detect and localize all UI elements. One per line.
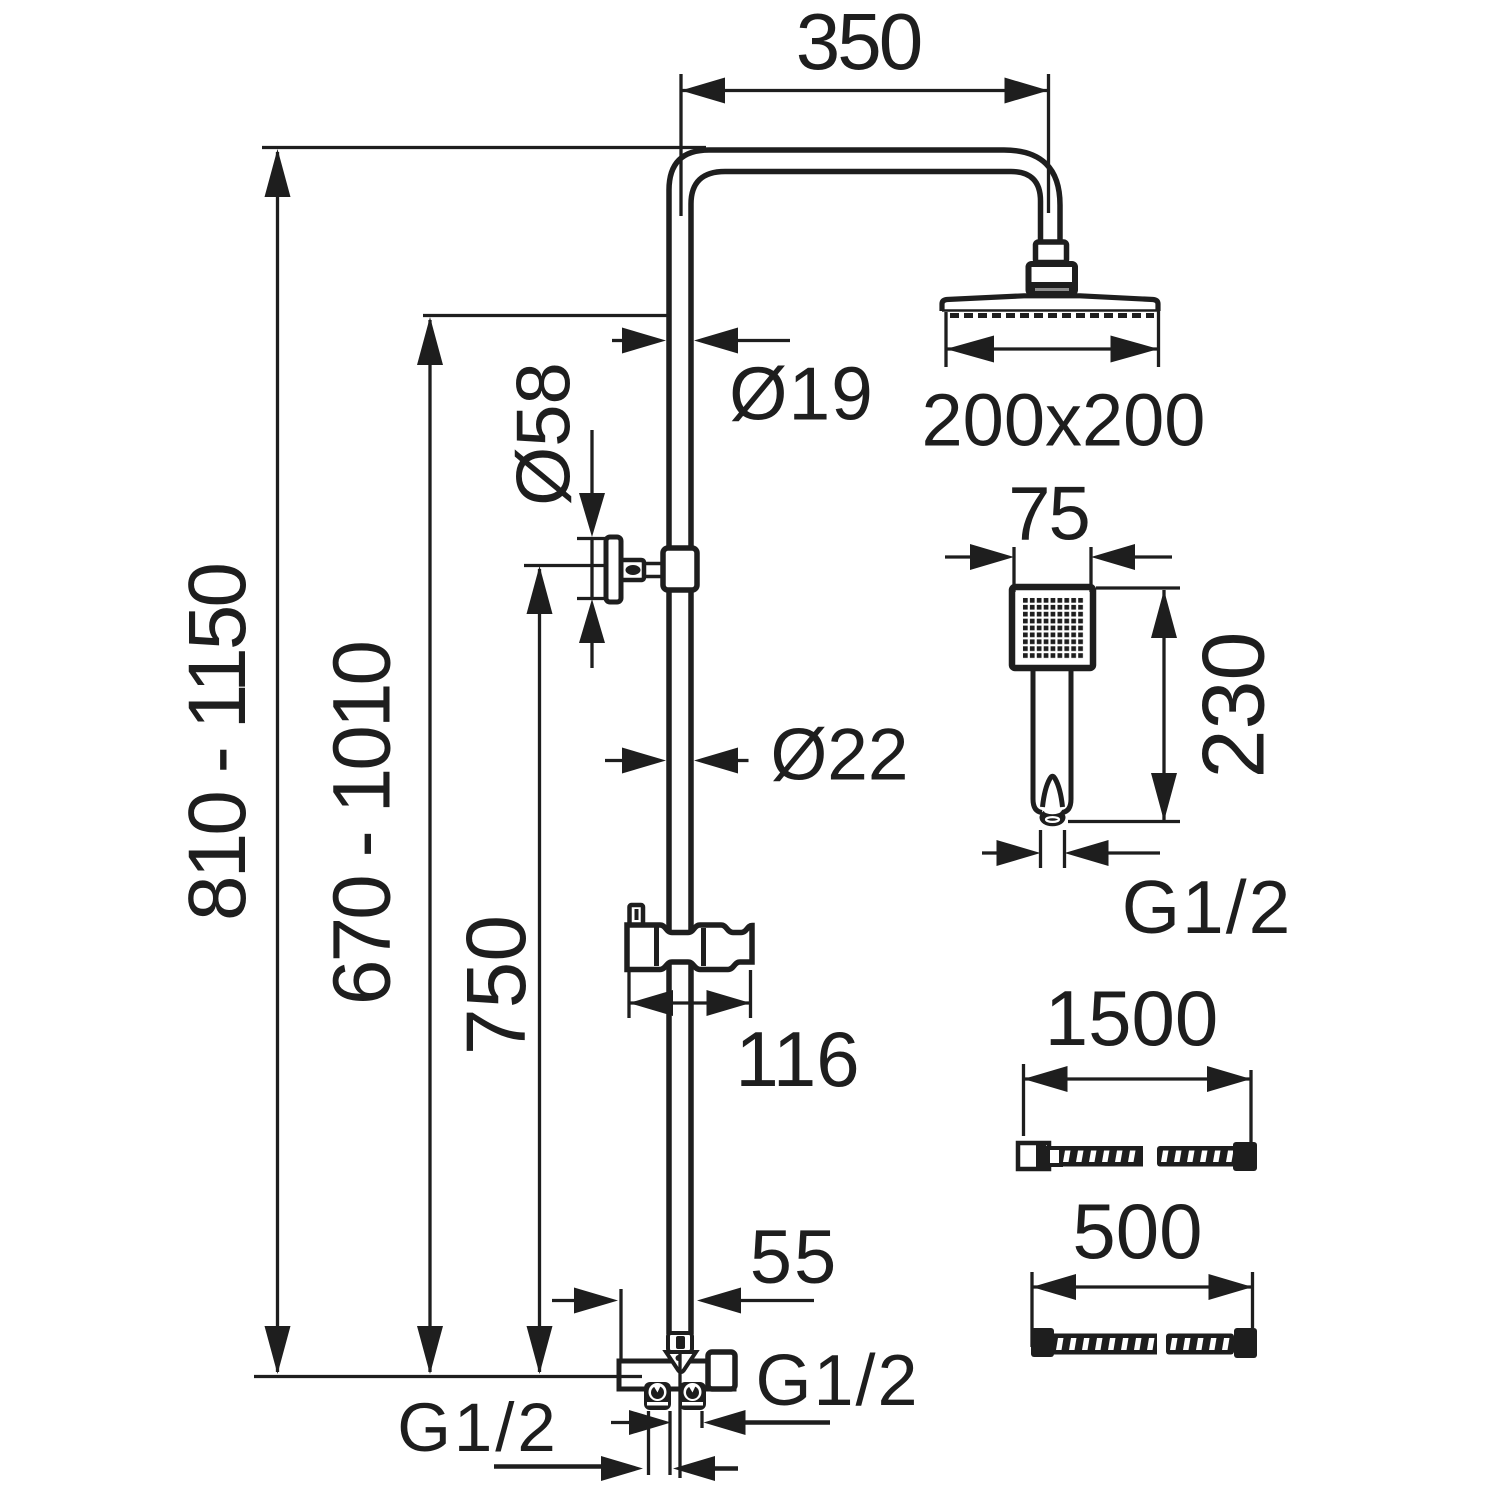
bottom G1/2 upper dim right tail xyxy=(745,1420,830,1425)
dimension Ø22 arrow left xyxy=(622,748,666,774)
dimension 810-1150 bottom arrow xyxy=(265,1326,291,1374)
bottom G1/2 lower dim right tail xyxy=(715,1466,738,1471)
hand shower G1/2 extension line left xyxy=(1039,830,1042,868)
dimension Ø58 bottom arrow shaft xyxy=(590,643,593,668)
hand shower handle left edge xyxy=(1033,668,1042,813)
dimension 670-1010 bottom arrow xyxy=(417,1326,443,1374)
slider holder top tab xyxy=(630,905,644,925)
hand shower G1/2 right tail xyxy=(1108,851,1160,854)
dimension 200 line xyxy=(946,347,1159,350)
dimension 750 bottom arrow xyxy=(527,1326,553,1374)
dimension Ø58 line between arrows xyxy=(590,538,593,599)
hose 500 left segment white slots xyxy=(1056,1338,1155,1350)
riser bottom fitting inner nut xyxy=(676,1336,685,1349)
hose 1500 left segment white slots xyxy=(1063,1151,1136,1163)
dimension 500 extension line right xyxy=(1251,1272,1254,1348)
svg-text:750: 750 xyxy=(449,915,543,1055)
dimension 230 line xyxy=(1162,590,1165,821)
shower head connector lower piece gray seam xyxy=(1035,288,1069,291)
svg-text:230: 230 xyxy=(1184,632,1283,779)
dimension 116 extension line left xyxy=(627,970,630,1018)
hand shower outlet bottom highlight xyxy=(1046,817,1059,822)
svg-text:670 - 1010: 670 - 1010 xyxy=(317,643,408,1005)
dimension 230 extension line bottom xyxy=(1068,820,1180,823)
dimension 230 extension line top xyxy=(1096,586,1180,589)
svg-text:G1/2: G1/2 xyxy=(397,1389,559,1466)
hose 1500 body left segment xyxy=(1059,1146,1143,1167)
shower head connector lower piece xyxy=(1029,264,1076,293)
hose 1500 left fitting nut bar xyxy=(1036,1145,1046,1167)
valve body xyxy=(619,1361,734,1389)
dimension 670-1010 top extension line xyxy=(423,314,668,317)
dimension 350 line xyxy=(681,89,1049,92)
dimension 55 arrow left xyxy=(574,1288,618,1314)
dimension 200 extension line right xyxy=(1157,310,1160,367)
svg-text:Ø58: Ø58 xyxy=(502,362,587,506)
hose 500 body right segment xyxy=(1166,1334,1234,1355)
bottom G1/2 lower dim left tail xyxy=(494,1464,602,1469)
dimension 55 extension line xyxy=(619,1289,622,1362)
valve right outlet square xyxy=(708,1352,735,1389)
wall bracket stem xyxy=(621,560,644,580)
valve bottom left fitting slot xyxy=(647,1402,668,1406)
bottom G1/2 upper dim arrow left xyxy=(629,1410,671,1435)
hand shower head square xyxy=(1012,587,1093,668)
overhead shower nozzle dashes xyxy=(950,313,1154,318)
shower head connector lower piece bottom band xyxy=(1029,282,1075,293)
dimension 350 arrow left xyxy=(681,78,725,104)
dimension 116 line xyxy=(629,1001,751,1004)
wall bracket pin bottom line xyxy=(644,575,664,579)
dimension 810-1150 top arrow xyxy=(265,149,291,197)
dimension 116 extension line right xyxy=(749,970,752,1018)
dimension 500 arrow right xyxy=(1209,1274,1253,1300)
slider holder division line right xyxy=(701,928,706,966)
dimension 500 arrow left xyxy=(1032,1274,1076,1300)
valve bottom right fitting xyxy=(679,1382,706,1410)
hand shower handle teardrop channel xyxy=(1043,776,1063,807)
valve bottom right fitting wedge xyxy=(686,1386,699,1399)
dimension 1500 line xyxy=(1024,1077,1252,1080)
dimension 200 extension line left xyxy=(944,312,947,367)
slider holder top tab slot xyxy=(635,909,639,920)
hose 1500 right segment white slots xyxy=(1161,1151,1234,1163)
hand shower G1/2 arrow right xyxy=(1065,840,1109,866)
svg-text:1500: 1500 xyxy=(1045,974,1219,1062)
svg-text:116: 116 xyxy=(735,1015,859,1103)
slider holder body xyxy=(627,925,752,970)
dimension 116 arrow right xyxy=(707,990,751,1016)
bottom G1/2 extension line b (left fitting right edge) xyxy=(668,1411,671,1475)
dimension 500 line xyxy=(1032,1285,1253,1288)
dimension 75 right tail xyxy=(1135,555,1172,558)
valve inlet cone xyxy=(666,1352,696,1372)
overhead shower head plate xyxy=(942,296,1158,311)
dimension 350 extension line right xyxy=(1047,74,1050,213)
dimension Ø58 extension line bottom xyxy=(577,597,607,600)
valve bottom right fitting circle xyxy=(684,1383,702,1401)
bottom G1/2 extension line a (left fitting left edge) xyxy=(647,1411,650,1475)
svg-text:Ø22: Ø22 xyxy=(771,715,909,796)
dimension 75 arrow right xyxy=(1091,544,1135,570)
dimension Ø19 right tail line xyxy=(738,339,790,342)
dimension 200 arrow right xyxy=(1111,336,1159,363)
dimension Ø19 left tail line xyxy=(612,339,628,342)
hand shower outlet xyxy=(1040,809,1066,827)
svg-text:200x200: 200x200 xyxy=(922,379,1206,462)
svg-text:75: 75 xyxy=(1008,472,1089,557)
dimension 55 right tail line xyxy=(741,1299,814,1302)
wire: main riser pipe inner (right) edge with top arm inner line xyxy=(691,172,1041,1335)
valve bottom left fitting circle xyxy=(649,1383,667,1401)
svg-text:55: 55 xyxy=(750,1215,839,1300)
bottom G1/2 extension line d (right fitting right edge) xyxy=(700,1411,703,1428)
wall bracket pin top line xyxy=(644,562,664,566)
svg-text:810 - 1150: 810 - 1150 xyxy=(172,565,263,921)
dimension 75 extension line right xyxy=(1089,547,1092,592)
dimension 1500 arrow right xyxy=(1207,1066,1251,1092)
wall bracket square collar on pipe xyxy=(663,548,697,590)
dimension Ø58 top arrow (points down) xyxy=(579,493,605,537)
hand shower spray face grid xyxy=(1022,597,1084,659)
hose 500 right end cap xyxy=(1234,1328,1257,1358)
hose 1500 right end cap xyxy=(1233,1142,1257,1171)
shower head connector upper piece xyxy=(1036,242,1067,263)
dimension 750 vertical line xyxy=(538,569,541,1372)
valve bottom right fitting slot xyxy=(682,1402,703,1406)
hose 500 right segment white slots xyxy=(1170,1338,1230,1350)
bottom center extension line through valve fittings xyxy=(678,1354,681,1478)
hand shower G1/2 left tail xyxy=(982,851,998,854)
dimension 810-1150 top extension line xyxy=(262,146,706,149)
riser bottom fitting xyxy=(668,1333,692,1352)
dimension 1500 arrow left xyxy=(1024,1066,1068,1092)
bottom G1/2 lower dim arrow right xyxy=(673,1456,715,1481)
svg-text:350: 350 xyxy=(796,0,921,86)
wall bracket escutcheon plate flange xyxy=(606,537,621,602)
dimension 75 left tail xyxy=(945,555,972,558)
valve bottom left fitting wedge xyxy=(651,1386,664,1399)
wall bracket pivot dot xyxy=(626,565,641,575)
dimension 350 extension line left xyxy=(679,74,682,216)
svg-text:500: 500 xyxy=(1072,1187,1202,1275)
bottom G1/2 upper dim left tail xyxy=(611,1421,630,1424)
hand shower G1/2 arrow left xyxy=(997,840,1041,866)
overhead shower head bottom line xyxy=(942,309,1158,312)
dimension Ø58 extension line top xyxy=(577,537,607,540)
dimension Ø22 right tail line xyxy=(738,759,749,762)
dimension 670-1010 vertical line xyxy=(428,320,431,1372)
hand shower G1/2 extension line right xyxy=(1063,830,1066,868)
dimension 1500 extension line right xyxy=(1249,1070,1252,1143)
dimension 55 arrow right xyxy=(697,1288,741,1314)
mounting line inside valve xyxy=(619,1375,642,1378)
hose 500 body left segment xyxy=(1052,1334,1157,1355)
dimension 55 left tail line xyxy=(552,1299,575,1302)
svg-text:Ø19: Ø19 xyxy=(729,352,874,436)
bottom G1/2 upper dim arrow right xyxy=(704,1410,746,1435)
dimension Ø19 arrow left (points right at pipe) xyxy=(622,328,666,354)
dimension 350 arrow right xyxy=(1005,78,1049,104)
slider holder division line left xyxy=(654,925,659,966)
bottom G1/2 lower dim arrow left xyxy=(601,1456,643,1481)
hose 1500 neck xyxy=(1048,1148,1061,1165)
dimension Ø22 arrow right xyxy=(694,748,738,774)
dimension 750 top arrow xyxy=(527,566,553,614)
hand shower outlet slot xyxy=(1044,808,1061,814)
valve bottom left fitting xyxy=(644,1382,671,1410)
dimension 230 arrow top xyxy=(1151,590,1177,638)
dimension Ø58 top arrow shaft xyxy=(590,430,593,495)
wall mounting reference line xyxy=(254,1375,642,1378)
dimension 230 arrow bottom xyxy=(1151,773,1177,821)
dimension 75 extension line left xyxy=(1012,547,1015,592)
dimension Ø58 bottom arrow (points up) xyxy=(579,599,605,643)
wire: main riser pipe outer (left) edge with top arm outer line xyxy=(669,150,1060,1334)
hose 1500 body right segment xyxy=(1157,1146,1236,1167)
dimension Ø19 arrow right (points left at pipe) xyxy=(694,328,738,354)
dimension 810-1150 vertical line xyxy=(276,152,279,1372)
hose 500 left end cap xyxy=(1031,1328,1054,1357)
dimension 750 extension line at bracket xyxy=(524,564,607,567)
dimension Ø22 left tail line xyxy=(605,759,624,762)
dimension 500 extension line left xyxy=(1030,1272,1033,1347)
dimension 200 arrow left xyxy=(946,336,994,363)
hose 1500 left fitting outer xyxy=(1018,1143,1049,1169)
valve inlet cone dot xyxy=(676,1355,682,1361)
dimension 116 arrow left xyxy=(629,990,673,1016)
dimension 1500 extension line left xyxy=(1022,1064,1025,1136)
dimension 670-1010 top arrow xyxy=(417,317,443,365)
dimension 75 arrow left xyxy=(970,544,1014,570)
hand shower handle right edge xyxy=(1062,668,1071,813)
svg-text:G1/2: G1/2 xyxy=(1122,865,1293,949)
svg-text:G1/2: G1/2 xyxy=(755,1341,919,1421)
